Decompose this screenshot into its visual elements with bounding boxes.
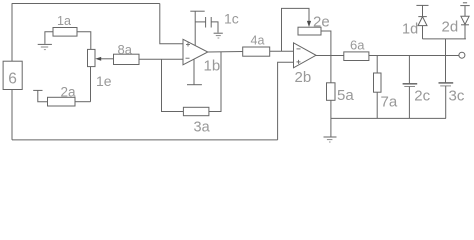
resistor R4a	[243, 47, 270, 56]
capacitor C1c	[195, 17, 218, 33]
wire diode drop to main rail	[445, 39, 447, 56]
svg-text:2b: 2b	[295, 69, 312, 86]
capacitor C3c	[439, 56, 454, 119]
wire 1b bottom supply stem	[193, 60, 195, 85]
svg-text:7a: 7a	[381, 94, 398, 111]
wire up to 2b + input	[278, 62, 294, 140]
diode D2d	[460, 3, 469, 39]
svg-text:4a: 4a	[251, 33, 265, 47]
svg-text:6: 6	[8, 71, 17, 88]
wire 5a top lead	[330, 56, 332, 83]
svg-text:3c: 3c	[449, 88, 465, 105]
potentiometer R2e	[298, 27, 321, 35]
terminal T-bar below 1b	[187, 84, 202, 86]
wire 1b output to 4a	[208, 51, 243, 54]
potentiometer R1e	[88, 49, 96, 66]
wire 7a top lead	[376, 56, 378, 74]
wire right-section bottom rail	[331, 117, 446, 119]
arrow wiper into 1e	[95, 57, 101, 61]
svg-text:5a: 5a	[337, 87, 354, 104]
wire 3a right lead up to output	[209, 52, 221, 112]
wire 1b top supply stem	[194, 11, 196, 45]
terminal T-bar above 1b	[190, 10, 204, 12]
wire top edge	[12, 3, 160, 5]
resistor R6a	[344, 52, 369, 61]
wire left rail lower	[11, 90, 13, 140]
wire diode bottom rail	[423, 38, 466, 40]
svg-text:8a: 8a	[118, 42, 133, 57]
wire 7a bottom lead	[376, 92, 378, 118]
svg-text:1e: 1e	[96, 73, 112, 89]
svg-text:1c: 1c	[224, 10, 239, 26]
wire 2a left lead	[38, 90, 48, 101]
ground (left of 1a)	[38, 44, 52, 49]
terminal T-bar near 2a	[33, 89, 42, 91]
wire left rail upper	[11, 4, 13, 62]
wire 5a bottom stem	[330, 100, 332, 137]
plus marker 2b	[297, 60, 301, 64]
wire 8a right lead to 1b - input	[139, 58, 183, 60]
wire 2e loop up and over	[282, 8, 310, 51]
wire 2e right lead down to output	[321, 31, 331, 56]
svg-text:2d: 2d	[442, 19, 459, 36]
wire 8a lead to 1e wiper	[100, 58, 114, 60]
wire 2b output main rail	[316, 55, 459, 57]
wire feedback down from - input	[162, 59, 184, 111]
wire 1e bottom lead	[90, 67, 92, 102]
wire drop to 1b + input	[160, 4, 183, 44]
wire 1a right lead to 1e top	[77, 32, 91, 50]
box 6 (source block)	[3, 61, 22, 89]
output terminal circle	[459, 52, 465, 58]
svg-text:2e: 2e	[313, 14, 330, 31]
minus marker 1b	[186, 57, 190, 59]
minus marker 2b	[297, 48, 301, 50]
resistor R8a	[114, 54, 140, 64]
svg-text:2a: 2a	[61, 85, 77, 100]
diode D1d	[416, 5, 428, 39]
svg-text:1d: 1d	[402, 22, 418, 38]
op-amp U2b	[294, 43, 317, 68]
plus marker 1b	[186, 43, 190, 47]
svg-text:6a: 6a	[350, 37, 365, 52]
svg-text:1a: 1a	[57, 14, 71, 28]
resistor R2a	[48, 97, 76, 106]
resistor R1a	[53, 28, 77, 37]
wire bottom rail	[12, 139, 278, 141]
resistor R5a	[327, 83, 336, 101]
wire 4a to 2b - input	[270, 50, 294, 52]
svg-text:1b: 1b	[204, 58, 221, 75]
wire 1a left lead	[45, 32, 53, 44]
wire 2a right lead	[75, 101, 91, 103]
ground below 5a	[324, 137, 337, 142]
svg-text:3a: 3a	[194, 120, 211, 136]
resistor R3a	[183, 107, 209, 115]
op-amp U1b	[183, 39, 208, 65]
svg-text:2c: 2c	[414, 88, 430, 105]
capacitor C2c	[403, 56, 418, 119]
arrow wiper into 2e	[307, 21, 311, 27]
resistor R7a	[374, 73, 382, 92]
ground (below 1c)	[214, 33, 223, 38]
